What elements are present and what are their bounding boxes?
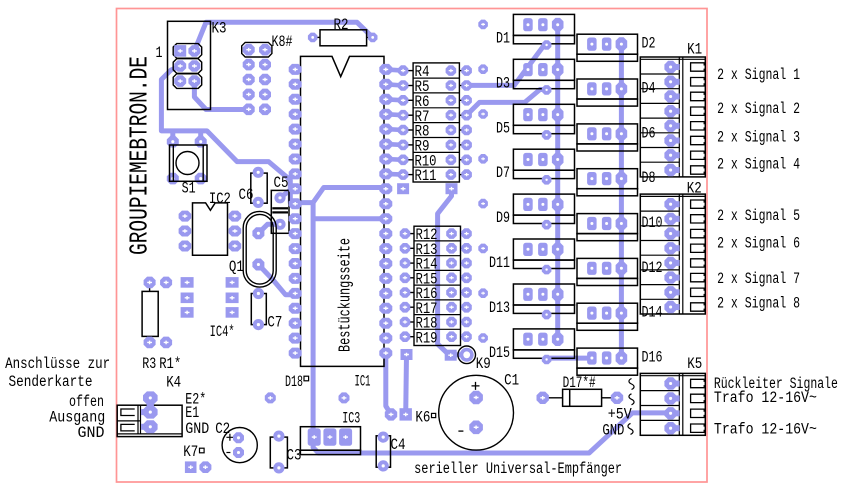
resistor R7 pad right [461, 110, 472, 121]
label R18 [416, 315, 438, 333]
label Rückleiter Signale [714, 375, 838, 393]
terminal K2 clamp symbol row8 [691, 303, 705, 311]
terminal K4 block [117, 405, 182, 436]
terminal K1 row divider 3 [640, 102, 679, 104]
ic IC4 pad left 2 [181, 293, 194, 304]
label 2 x Signal 2 [717, 100, 800, 118]
svg-text:C5: C5 [274, 174, 289, 192]
svg-text:2 x Signal 7: 2 x Signal 7 [717, 270, 800, 288]
ic IC2 pad right 1 [229, 211, 242, 222]
pushbutton S1 pad1 [167, 136, 179, 148]
relay D2 pad2 [602, 38, 612, 51]
terminal K1 row divider 2 [640, 88, 679, 90]
label Q1 [229, 258, 244, 276]
label R2 [334, 16, 349, 34]
ic IC2 pad right 3 [229, 241, 242, 252]
resistor R18 pad left [400, 317, 411, 328]
relay D14 pad3 [616, 306, 628, 320]
label C7 [267, 314, 282, 332]
svg-text:serieller Universal-Empfänger: serieller Universal-Empfänger [414, 460, 622, 478]
label serieller Universal-Empfänger [414, 460, 622, 478]
wire IC1 pin to R10 [386, 157, 403, 162]
capacitor C2 minus mark [226, 452, 230, 454]
wire Q1 top to C5 bottom [258, 224, 280, 233]
label Bestückungsseite (vertical) [336, 238, 355, 352]
svg-text:D1: D1 [496, 29, 510, 47]
relay D16 pad1 [587, 351, 597, 364]
relay D16 pad2 [602, 351, 612, 364]
relay D4 pad1 [587, 82, 597, 95]
relay D16 body [577, 348, 638, 368]
svg-text:R19: R19 [416, 329, 438, 347]
ic IC2 pad left 2 [179, 226, 192, 237]
svg-text:1: 1 [156, 44, 163, 62]
wire R5 to D1 below-pad [467, 45, 547, 86]
label +5V [608, 406, 633, 424]
ic IC1 pad left pin15 [289, 273, 302, 284]
resistor R10 leads [408, 159, 462, 161]
resistor R19 leads [409, 336, 463, 338]
label Anschlüsse zur [5, 355, 110, 373]
label 2 x Signal 3 [717, 129, 800, 147]
ic IC1 pad right pin29 [379, 228, 392, 239]
ic IC3 body [300, 427, 360, 451]
relay D4 lower strip [577, 99, 638, 106]
relay D4 pad2 [602, 82, 612, 95]
label 2 x Signal 5 [717, 207, 800, 225]
terminal K2 row divider 2 [640, 225, 679, 227]
ic IC3 pad3 [339, 428, 352, 445]
resistor R11 pad mid [446, 169, 457, 180]
ic IC1 pad left pin4 [289, 109, 302, 120]
svg-text:D15: D15 [489, 344, 510, 362]
capacitor C1 outline [439, 375, 514, 450]
wire K6 pad2 up to pad [403, 355, 409, 415]
label K2 [687, 179, 702, 197]
relay D13 pad1 [523, 288, 533, 301]
label D7 [496, 164, 510, 182]
pushbutton S1 pad3 [167, 173, 179, 185]
label GND [185, 420, 209, 438]
svg-text:C3: C3 [287, 446, 302, 464]
resistor R2 leads [313, 36, 373, 38]
relay D6 pad3 [616, 127, 628, 141]
svg-text:Anschlüsse zur: Anschlüsse zur [5, 355, 110, 373]
terminal K2 clamp symbol row7 [691, 288, 705, 296]
capacitor C6 pad top [253, 167, 264, 178]
ic IC1 pad left pin9 [289, 183, 302, 194]
ac mark K5 row2 [629, 394, 634, 405]
resistor R13 leads [409, 247, 463, 249]
ic IC1 pad right pin40 [379, 64, 392, 75]
resistor R6 pad left [398, 95, 409, 106]
relay D5 pad1 [523, 108, 533, 121]
connector K8 pad row4 right [259, 89, 271, 101]
capacitor C1 pad+ [469, 391, 483, 405]
svg-text:IC1: IC1 [355, 373, 371, 391]
via V3 [478, 109, 488, 119]
terminal K2 row divider 1 [640, 210, 679, 212]
resistor R18 pad right [461, 317, 472, 328]
ic IC1 pad left pin12 [289, 228, 302, 239]
ic IC1 pad left pin7 [289, 154, 302, 165]
relay D16 lower strip [577, 368, 638, 375]
terminal K2 pad row6 [664, 271, 679, 283]
capacitor C1 pad- [469, 421, 483, 435]
relay D15 lower strip [513, 350, 574, 358]
via under D18 [265, 392, 276, 403]
capacitor C2 pad+ [233, 432, 244, 443]
ic IC1 pad right pin26 [379, 273, 392, 284]
label K7 [183, 443, 204, 461]
terminal K1 clamp symbol row3 [691, 92, 705, 101]
relay D13 pad3 [552, 288, 564, 302]
label K6 [415, 408, 435, 426]
connector K7 pad1 (square) [185, 461, 197, 473]
relay D12 pad2 [602, 262, 612, 275]
via V2 [478, 64, 488, 74]
label R17 [416, 300, 438, 318]
resistor R8 pad right [461, 125, 472, 136]
resistor R9 leads [408, 144, 462, 146]
label S1 [182, 179, 196, 197]
terminal K2 clamp symbol row4 [691, 244, 705, 252]
ic IC1 pad right pin31 [379, 198, 392, 209]
relay D6 pad2 [602, 127, 612, 140]
ic IC1 pad right pin24 [379, 303, 392, 314]
connector K8 pin-pair outline row1 [242, 42, 272, 57]
label Ausgang [49, 409, 105, 427]
board outline (pink frame) [117, 9, 708, 483]
ic IC1 pad left pin11 [289, 213, 302, 224]
ic IC1 pad right pin32 [379, 183, 392, 194]
terminal K2 row divider 3 [640, 240, 679, 242]
terminal K2 clamp symbol row5 [691, 259, 705, 267]
label R19 [416, 329, 438, 347]
diode D17 cathode band [569, 389, 571, 406]
capacitor C4 body [376, 436, 390, 467]
label C1 [504, 371, 519, 389]
label R16 [416, 285, 438, 303]
svg-text:2 x Signal 8: 2 x Signal 8 [717, 294, 800, 312]
wire K3 to R2 (top horizontal) [194, 22, 372, 51]
connector K8 pad row2 left [243, 59, 255, 71]
pad below R11 right [446, 183, 458, 194]
svg-text:D8: D8 [642, 169, 656, 187]
relay D15 below-pad [542, 355, 552, 365]
connector K3 pin-pair outline row2 [173, 59, 202, 74]
svg-text:K4: K4 [166, 373, 181, 391]
resistor row divider R5 [413, 77, 459, 79]
resistor R13 pad mid [446, 243, 457, 254]
ic IC4 pad right 1 [226, 277, 239, 288]
resistor R5 pad left [398, 80, 409, 91]
label D5 [496, 119, 510, 137]
relay D2 lower strip [577, 54, 638, 61]
label R11 [415, 167, 437, 185]
ac mark K5 row1 [629, 379, 634, 390]
relay D10 body [577, 214, 638, 234]
svg-text:K8#: K8# [272, 33, 293, 51]
relay D10 lower strip [577, 234, 638, 241]
connector K7 pad2 [199, 461, 211, 473]
ic IC4 pad right 2 [226, 293, 239, 304]
relay D10 pad3 [616, 217, 628, 231]
label R7 [415, 108, 430, 126]
pushbutton S1 body [170, 145, 208, 181]
capacitor C7 pad top [253, 288, 264, 299]
resistor R5 leads [408, 85, 462, 87]
svg-text:D12: D12 [642, 259, 663, 277]
label D12 [642, 259, 663, 277]
resistor R11 pad right [461, 169, 472, 180]
terminal K1 clamp symbol row7 [691, 151, 705, 159]
terminal K1 pad row8 [664, 164, 679, 176]
svg-text:C4: C4 [391, 436, 406, 454]
resistor R2 body [320, 30, 367, 46]
relay D15 pad2 [538, 333, 548, 346]
ic IC1 pad left pin16 [289, 288, 302, 299]
resistor row divider R15 [414, 269, 461, 271]
label R5 [415, 78, 430, 96]
label D13 [489, 299, 510, 317]
connector K3 pad pin5 [174, 75, 186, 87]
label R13 [416, 241, 438, 259]
terminal K2 row divider 6 [640, 284, 679, 286]
svg-text:2 x Signal 2: 2 x Signal 2 [717, 100, 800, 118]
terminal K2 clamp symbol row3 [691, 229, 705, 237]
terminal K1 pad row6 [664, 134, 679, 146]
label C6 [239, 186, 254, 204]
resistor row divider R17 [414, 299, 461, 301]
resistor R1 pad bottom [160, 337, 172, 349]
terminal K4 clamp symbol row2 [121, 424, 135, 431]
crystal Q1 pad bottom [252, 259, 264, 271]
svg-text:D2: D2 [642, 35, 656, 53]
resistor R7 pad left [398, 110, 409, 121]
terminal K5 row divider 2 [640, 405, 679, 407]
svg-text:IC4*: IC4* [210, 323, 235, 341]
svg-text:GND: GND [78, 424, 105, 442]
terminal K1 pad row3 [664, 90, 679, 103]
terminal K2 pad row1 [664, 198, 679, 210]
label IC2 [209, 190, 231, 208]
label D2 [642, 35, 656, 53]
relay D10 pad1 [587, 217, 597, 230]
relay D8 lower strip [577, 189, 638, 196]
relay D11 below-pad [542, 265, 552, 275]
ic IC1 pad right pin21 [379, 348, 392, 359]
resistor R17 pad left [400, 302, 411, 313]
relay D15 pad1 [523, 333, 533, 346]
resistor R5 pad mid [446, 80, 457, 91]
wire IC1 pin to R9 [386, 142, 403, 147]
label R15 [416, 270, 438, 288]
terminal K1 pad row2 [664, 76, 679, 89]
connector K6 pad1 [385, 408, 397, 420]
ic IC1 pad right pin22 [379, 333, 392, 344]
label C5 [274, 174, 289, 192]
relay D11 pad1 [523, 243, 533, 256]
resistor R9 pad mid [446, 140, 457, 151]
resistor row divider R16 [414, 284, 461, 286]
relay D2 pad1 [587, 38, 597, 51]
resistor R16 pad right [461, 287, 472, 298]
svg-text:R11: R11 [415, 167, 437, 185]
resistor R11 leads [408, 174, 462, 176]
pushbutton S1 button circle [176, 152, 199, 175]
crystal Q1 body [243, 211, 276, 287]
svg-text:Trafo 12-16V~: Trafo 12-16V~ [714, 389, 817, 407]
label GND (K5) [602, 421, 633, 439]
pad below R19 mid (square) [445, 350, 457, 361]
ic IC2 pad left 3 [179, 241, 192, 252]
ic IC1 pad left pin1 [289, 64, 302, 75]
ic IC1 pad left pin5 [289, 124, 302, 135]
wire S1 pad stubs [173, 131, 201, 142]
relay D15 pad3 [552, 332, 564, 346]
resistor R12 pad left [400, 228, 411, 239]
svg-text:D9: D9 [496, 209, 510, 227]
connector K3 pin-pair outline row1 [173, 44, 202, 59]
svg-text:Bestückungsseite: Bestückungsseite [336, 238, 355, 352]
ic IC1 pad right pin27 [379, 258, 392, 269]
ic IC1 pad right pin37 [379, 109, 392, 120]
relay D13 pad2 [538, 288, 548, 301]
svg-text:2 x Signal 4: 2 x Signal 4 [717, 156, 800, 174]
label D9 [496, 209, 510, 227]
connector K8 pad row5 left [243, 104, 255, 116]
terminal K5 pad row3 [664, 407, 679, 419]
terminal K2 clamp symbol row1 [691, 200, 705, 208]
capacitor C1 minus mark [458, 430, 463, 432]
label Senderkarte [9, 373, 93, 391]
resistor row divider R7 [413, 107, 459, 109]
relay D1 body [513, 14, 574, 35]
relay D8 body [577, 169, 638, 189]
relay D12 pad3 [616, 262, 628, 276]
relay D8 pad3 [616, 172, 628, 186]
wire K3 to K8 grid bottom row [194, 81, 248, 110]
terminal K5 block [640, 373, 705, 435]
relay D9 pad2 [538, 198, 548, 211]
connector K8 pad row3 right [259, 74, 271, 86]
label GND (left) [78, 424, 105, 442]
capacitor C3 body [270, 437, 287, 468]
resistor R7 leads [408, 114, 462, 116]
resistor R3 pad bottom [144, 337, 156, 349]
ic IC1 pad right pin35 [379, 139, 392, 150]
connector K8 pad row5 right [259, 104, 271, 116]
resistor row divider R13 [414, 240, 461, 242]
via V8 [478, 333, 488, 343]
resistor row divider R8 [413, 122, 459, 124]
pushbutton S1 pad2 [195, 136, 207, 148]
resistor R10 pad mid [446, 155, 457, 166]
relay D8 pad2 [602, 172, 612, 185]
label D15 [489, 344, 510, 362]
svg-text:D14: D14 [642, 304, 663, 322]
ic IC1 body [301, 56, 385, 366]
label D8 [642, 169, 656, 187]
terminal K5 clamp symbol row4 [691, 424, 705, 432]
relay D14 pad2 [602, 307, 612, 320]
wire IC1 pin to R6 [386, 99, 403, 100]
resistor R17 leads [409, 306, 463, 308]
svg-text:D13: D13 [489, 299, 510, 317]
diode D17 body [563, 389, 602, 406]
label R8 [415, 123, 430, 141]
relay D3 pad2 [538, 63, 548, 76]
wire IC1 pin to R8 [386, 127, 403, 132]
connector K3 pad pin6 [188, 75, 200, 87]
relay D9 pad3 [552, 198, 564, 212]
ic IC1 pad left pin6 [289, 139, 302, 150]
terminal K1 pad row4 [664, 105, 679, 117]
resistor R4 pad left [398, 65, 409, 76]
svg-text:C7: C7 [267, 314, 282, 332]
resistor R18 leads [409, 321, 463, 323]
ic IC4 pad right 3 [226, 307, 239, 318]
relay D12 pad1 [587, 262, 597, 275]
label 2 x Signal 6 [717, 234, 800, 252]
terminal K1 pad row7 [664, 149, 679, 161]
relay D3 pad1 [523, 63, 533, 76]
label D14 [642, 304, 663, 322]
relay D3 body [513, 59, 574, 80]
label 2 x Signal 1 [717, 66, 800, 84]
terminal K1 row divider 4 [640, 117, 679, 119]
relay D1 pad3 [552, 18, 564, 32]
label R12 [416, 226, 438, 244]
wire junction to IC1 right row9 [313, 188, 386, 203]
capacitor C5 plates [272, 208, 288, 212]
via V5 [478, 199, 488, 209]
wire Q1 bottom to IC1 left row16 [258, 265, 295, 295]
svg-text:IC3: IC3 [342, 410, 360, 428]
wire K3 pin4 left vertical to S1 area [161, 66, 313, 203]
relay D6 lower strip [577, 144, 638, 151]
connector K3 outline [168, 21, 211, 109]
resistor R2 pad left [308, 33, 318, 43]
terminal K1 row divider 7 [640, 161, 679, 163]
ic IC1 pad left pin10 [289, 198, 302, 209]
relay D11 lower strip [513, 260, 574, 268]
label D16 [642, 349, 663, 367]
resistor R19 pad mid [446, 331, 457, 342]
resistor R3 pad top [144, 277, 156, 289]
pad below R19 left (square) [401, 349, 413, 360]
resistor R3 body [142, 291, 158, 336]
label K3 [212, 20, 227, 38]
svg-text:2 x Signal 5: 2 x Signal 5 [717, 207, 800, 225]
svg-text:Q1: Q1 [229, 258, 244, 276]
relay D7 lower strip [513, 170, 574, 178]
relay D16 pad3 [616, 351, 628, 365]
terminal K1 row divider 5 [640, 132, 679, 134]
diode D17 pad right [611, 392, 623, 404]
terminal K5 row divider 3 [640, 419, 679, 421]
relay D8 pad1 [587, 172, 597, 185]
capacitor C5 pad top [274, 192, 285, 203]
label K9 [476, 355, 491, 373]
wire vertical through IC1 to bottom bus [313, 203, 673, 453]
relay D6 pad1 [587, 127, 597, 140]
capacitor C4 pad top [378, 432, 389, 443]
terminal K5 row divider 1 [640, 390, 679, 392]
capacitor C7 body [251, 294, 266, 325]
relay D1 pad2 [538, 18, 548, 31]
